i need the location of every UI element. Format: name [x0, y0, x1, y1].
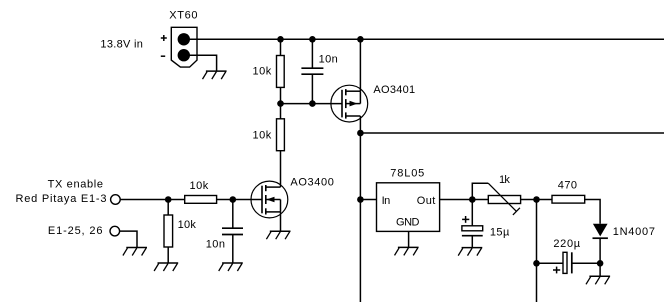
node D1 / C4: [597, 260, 604, 267]
resistor R4 10k: [164, 215, 173, 247]
C4 plus marker: [553, 267, 560, 274]
wire rail to U1 In: [360, 199, 376, 201]
wire switched 13.8V mid rail: [360, 132, 664, 134]
ground (XT60 minus): [203, 71, 227, 79]
node mid rail: [357, 130, 364, 137]
node top rail / C1: [309, 36, 316, 43]
svg-text:220µ: 220µ: [553, 238, 580, 250]
svg-text:1N4007: 1N4007: [613, 226, 655, 238]
svg-text:AO3401: AO3401: [373, 84, 415, 96]
wire Q1 drain rail down: [359, 116, 361, 302]
wire R5 to node: [521, 199, 552, 201]
node top rail / R1: [277, 36, 284, 43]
capacitor C2 10n: [222, 200, 243, 264]
XT60 plus pin marker: [161, 35, 167, 41]
ground (D1/C4): [586, 276, 610, 284]
wire top rail to Q1 source: [359, 39, 361, 91]
wire R2 to AO3400 drain: [280, 151, 282, 187]
wire U1 Out: [440, 199, 489, 201]
svg-text:15µ: 15µ: [490, 227, 510, 239]
ground (C3): [458, 248, 482, 256]
node rail2 / C4: [533, 260, 540, 267]
node rail / U1 In: [357, 196, 364, 203]
capacitor C1 10n: [301, 39, 323, 103]
ground (U1 GND): [395, 247, 419, 255]
node R1/R2/gate: [277, 100, 284, 107]
trimmer R5 1k: [472, 183, 520, 215]
wire node to R4: [167, 200, 169, 216]
C3 plus marker: [462, 216, 469, 223]
wire R3 to Q2 gate: [217, 199, 262, 201]
resistor R6 470: [552, 195, 585, 203]
svg-text:10k: 10k: [178, 219, 197, 231]
capacitor C4 220µ: [537, 252, 601, 273]
svg-text:470: 470: [558, 179, 577, 191]
wire terminal to ground: [120, 231, 137, 247]
svg-text:TX enable: TX enable: [48, 179, 103, 191]
wire U1 GND to ground: [408, 231, 410, 247]
node R3/C2/gate: [230, 196, 237, 203]
capacitor C3 15µ: [462, 200, 483, 248]
svg-text:10k: 10k: [253, 130, 272, 142]
resistor R2 10k: [277, 119, 285, 151]
svg-text:In: In: [382, 195, 391, 207]
connector XT60: [171, 27, 197, 67]
svg-text:10k: 10k: [253, 66, 272, 78]
wire R1 to gate node: [280, 87, 282, 103]
wire +13.8V top rail: [188, 38, 664, 40]
terminal TX enable: [111, 195, 121, 205]
terminal E1-25, 26: [110, 226, 120, 236]
wire R6 to D1: [585, 200, 600, 224]
wire R4 to ground: [167, 247, 169, 263]
svg-text:10n: 10n: [319, 54, 338, 66]
wire gate node to R2: [280, 104, 282, 119]
wire right rail down: [536, 200, 538, 302]
node C1 / gate wire: [309, 100, 316, 107]
regulator U1 78L05: [377, 183, 440, 232]
wire gate node row: [281, 103, 343, 105]
wire top rail to R1: [280, 39, 282, 55]
ground (R4): [154, 263, 178, 271]
ground (E1-25, 26): [123, 248, 147, 256]
svg-text:10k: 10k: [190, 180, 209, 192]
svg-text:13.8V in: 13.8V in: [100, 39, 142, 51]
svg-text:E1-25, 26: E1-25, 26: [48, 225, 103, 237]
ground (C2): [219, 263, 243, 271]
transistor Q2 AO3400 (N-MOSFET): [251, 181, 288, 218]
svg-text:GND: GND: [396, 217, 420, 229]
wire XT60 minus to ground: [188, 55, 217, 71]
svg-text:10n: 10n: [206, 239, 225, 251]
ground (Q2 source): [266, 231, 290, 239]
diode D1 1N4007: [593, 224, 608, 277]
node top rail / Q1 source: [357, 36, 364, 43]
svg-text:1k: 1k: [499, 174, 510, 186]
svg-text:Red Pitaya E1-3: Red Pitaya E1-3: [16, 193, 107, 205]
node R5/R6/rail2: [533, 196, 540, 203]
svg-text:AO3400: AO3400: [290, 177, 334, 189]
node Out / C3 / wiper: [469, 196, 476, 203]
svg-text:78L05: 78L05: [390, 168, 424, 180]
node R3/R4: [165, 196, 172, 203]
svg-text:XT60: XT60: [169, 10, 197, 22]
XT60 minus pin marker: [161, 55, 165, 57]
resistor R3 10k: [185, 196, 217, 204]
transistor Q1 AO3401 (P-MOSFET): [331, 85, 368, 122]
wire Q2 source to ground: [280, 212, 282, 231]
svg-text:Out: Out: [417, 195, 436, 207]
wire terminal to R3: [120, 199, 185, 201]
resistor R1 10k: [277, 56, 285, 88]
